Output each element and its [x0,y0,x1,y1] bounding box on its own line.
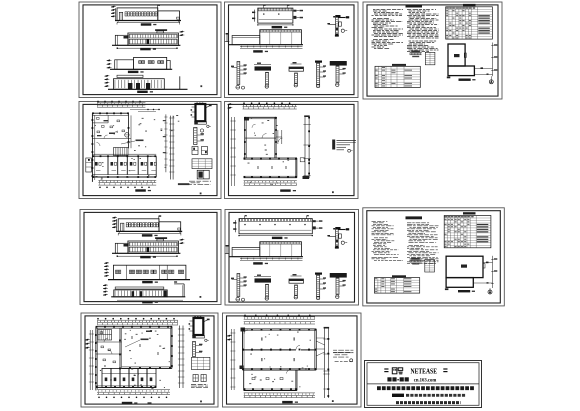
detail 3 vertical bar [295,73,298,84]
elevation 2 bottom dimension line [117,47,177,49]
elevation 1 building outline [118,219,159,232]
elevation 2 entrance dark door [147,39,150,44]
elevation 1 roof flag [158,216,160,222]
elevation 1 right wing [158,11,180,21]
room row band [102,368,156,387]
elevation 3 ground line [108,279,190,281]
elevation 3 long building outline [113,265,185,279]
detail 2 vertical bar [266,72,269,85]
roof plan outline [239,219,312,234]
elevation 1 left axis markers [111,6,114,8]
door window schedule table [446,7,493,39]
elevation 1 bottom dimension line [118,232,181,234]
detail 5 top slab [330,273,347,277]
door window schedule title [463,4,476,6]
plan top wall [92,112,128,114]
extension interior [252,378,255,380]
elevation 2 entrance dark door [147,247,150,252]
elevation 3 left axis markers [104,262,107,264]
key plan garage outline [446,256,483,277]
lower wide block top wall [244,157,297,159]
detail 4 side marks [320,278,325,280]
right top detail bubble [341,29,344,32]
strip dark base [303,176,310,179]
leader labels [125,340,140,347]
room row dividers [107,156,109,174]
detail 1 side leaders [240,277,246,279]
roof plan top hatch [258,8,292,10]
wall section mini detail [410,259,422,261]
window schedule mini table [192,357,210,369]
detail 5 top slab [330,61,347,65]
key plan caption [458,290,470,292]
elevation 3 right side wall [167,61,171,70]
elevation 3 left low block [115,60,134,70]
elevation 4 caption [142,301,153,303]
right wall-section strip [178,326,180,389]
right top detail hatched bar [336,229,339,248]
elevation 4 parapet strip [117,75,143,77]
room number marks [261,337,263,340]
long section strip main [260,30,302,45]
dimension text speckle [248,119,290,185]
elevation 4 window mullions [115,291,167,296]
column dots upper [244,117,246,119]
right mid hatched bar detail [194,128,197,145]
door arcs and clutter [114,131,118,135]
detail 2 vertical bar [266,284,269,297]
panel 2 sheet inner border [229,5,355,95]
sheet number mark [332,400,334,402]
elevation 4 window mullions [115,80,163,88]
bottom dimension strip [98,179,156,181]
key plan label [461,265,467,268]
schedule header row [446,8,448,9]
north arrow [489,80,493,84]
plan bottom wall right part [122,366,172,368]
roof plan ridge line [259,19,292,21]
right mid hatched bar detail [193,342,196,357]
dimension text speckle [100,330,170,388]
detail 2 bubble [265,85,268,88]
netease footer line [396,401,461,404]
roof plan right leader notes [293,10,296,12]
schedule header row [445,216,447,217]
mid horizontal wall [92,138,131,140]
roof plan caption [272,26,283,28]
detail 1 bubbles [236,297,240,301]
detail 5 vertical bar [336,66,339,83]
detail 3 horizontal slab [289,67,304,71]
plan fixtures upper [97,118,100,120]
sheet number mark [200,401,202,403]
section strip caption [253,262,263,264]
bottom dimension strip [244,392,315,394]
elevation 4 left axis markers [105,75,108,77]
right top detail flag [335,15,340,17]
key plan leader lines [474,67,492,69]
stair shaft top dots [194,317,196,319]
notes bubble [350,359,353,362]
detail 2 bubble [265,297,268,300]
roof plan top flags [262,5,264,8]
netease title glyph wang [392,368,397,374]
panel 10 sheet inner border [227,316,358,404]
detail 5 bubble [336,295,339,298]
detail 4 vertical bar [317,63,320,85]
interior door arc upper [252,124,256,128]
elevation 4 dark doors [128,83,132,89]
key plan garage outline [448,44,465,66]
netease title equals right [443,368,447,370]
roof plan outline [258,8,293,23]
elevation 1 window row [125,12,127,16]
stair shaft bottom bar [193,335,205,338]
elevation 2 left wing door [124,36,128,39]
roof plan top flags [244,216,246,219]
key plan door mark [464,53,466,58]
detail 5 bubble [336,83,339,86]
bottom dimension strip [97,389,170,391]
lower block column dots [244,158,246,160]
elevation 2 lower window band [129,247,177,252]
room row fixtures [95,162,98,166]
plan caption [280,189,291,191]
roof plan left markers [235,220,237,232]
left dimension lines [231,117,233,186]
detail 1 vertical bar [237,62,240,85]
elevation 2 caption [140,48,151,50]
strip left box [300,158,304,162]
mini schedule strip table [425,52,435,65]
elevation 3 caption [128,71,138,73]
plan interior partitions [96,341,122,343]
right top detail flag [335,227,340,229]
schedule cell entries [445,215,447,218]
detail 3 bubble [294,296,297,299]
plan caption [135,189,146,191]
elevation 2 right axis markers [180,31,183,33]
material table [375,66,420,87]
detail 2 horizontal slab [255,66,272,70]
stair shaft right leader [203,320,207,322]
key plan leader lines [483,262,493,264]
right top detail right arm [338,229,345,231]
stair shaft detail ring [196,104,206,121]
panel 8 sheet outer border [363,208,505,306]
svg-text:NETEASE: NETEASE [411,366,438,375]
elevation 3 caption [142,281,153,283]
netease banner inner border [367,363,479,406]
notes under figures [189,180,211,182]
stair shaft top dots [196,103,198,105]
top axis dimension lines [244,316,315,318]
upper-left room partition [92,122,108,124]
stair block top-left [98,330,112,341]
panel 7 sheet inner border [229,212,355,302]
elevation 2 upper window band [129,242,177,246]
left outside ramp [86,158,92,172]
right top detail footing [335,35,339,37]
elevation 2 ground line [112,44,180,46]
elevation 2 bottom dimension line [117,255,177,257]
panel 10 sheet outer border [223,313,362,407]
plan interior vertical wall [128,113,130,148]
detail 4 flag top [315,61,322,63]
sheet number mark [200,296,202,298]
stair shaft detail ring [194,318,204,335]
panel 4 sheet outer border [79,102,221,199]
bottom-left entry steps [240,366,244,370]
right top detail bubble [341,241,344,244]
right wall-section strip [324,328,326,398]
top-left entry steps [241,328,246,332]
elevation 2 upper window band [129,34,177,38]
wall section mini detail [410,52,422,54]
stair shaft right leader [205,106,209,108]
netease subtitle glyphs wangyi jianzhu [387,377,391,381]
material table title [392,64,406,66]
section strip ground line [229,256,303,258]
panel 8 sheet inner border [367,211,501,303]
detail 4 bubble [316,84,319,87]
key plan caption [459,79,471,81]
dimension text speckle [249,332,311,387]
upper block top wall [245,116,276,118]
elevation 3 windows [139,61,142,64]
door swing detail right of block [277,130,279,144]
netease slogan line [377,386,474,390]
elevation 1 entrance door [121,223,124,231]
interior mid wall and door [245,137,276,139]
right top detail left arm [328,23,335,25]
elevation 4 parapet strip [115,287,164,289]
sheet number mark [200,85,202,87]
detail 4 flag top [315,273,322,275]
right wall-section strip [304,116,306,178]
elevation 4 ground line [108,88,188,90]
opening detail figures [192,147,198,155]
key plan dimension line [492,256,494,288]
stair shaft left ticks [192,106,196,108]
detail 5 leaders [339,281,344,283]
netease contact line [392,394,404,397]
window schedule mini table [192,159,212,169]
sheet number mark [332,191,334,193]
plan caption [282,401,293,403]
elevation 4 bottom dimension line [117,299,183,301]
panel 2 sheet outer border [225,2,359,98]
sheet number mark [200,193,202,195]
elevation 1 ground line [116,230,182,232]
roof plan top hatch [240,219,312,221]
elevation 4 right post [179,76,181,89]
room row fixtures [105,378,108,382]
panel 9 sheet outer border [81,313,218,407]
long section strip left wing [232,36,260,45]
panel 3 sheet inner border [367,5,498,96]
material table title [392,275,406,277]
netease title equals left [384,368,388,370]
netease divider rule [367,383,479,385]
plan right wall [169,328,171,368]
elevation 1 entrance door [119,12,122,20]
roof plan bottom dimension [239,235,312,237]
elevation 3 left axis markers [107,60,110,62]
key plan dimension line [492,43,494,77]
elevation 3 ground line [110,68,172,70]
interior room marks [139,344,141,347]
elevation 1 right wing [159,222,181,232]
leader label [121,141,135,144]
window type figures [193,375,198,382]
detail 3 bubble [294,84,297,87]
elevation 1 window row [126,223,128,227]
roof plan bottom dimension [258,24,293,26]
elevation 1 bottom dimension line [117,22,180,24]
material table [374,278,419,294]
upper block left wall [244,117,246,158]
mini schedule strip table [425,260,435,273]
plan interior vertical wall [119,328,121,368]
right vertical dimension line [165,114,167,172]
plan caption [122,402,133,404]
right notes dark mark [332,140,335,150]
elevation 4 right extension [174,283,184,285]
key plan corner blob [445,288,449,290]
north arrow [488,290,492,294]
room row top wall [92,153,156,155]
detail 4 vertical bar [317,275,320,297]
lower block interior marks [257,166,259,169]
right top detail right arm [338,17,345,19]
elevation 1 caption [142,234,153,236]
elevation 1 wing end window [178,228,181,230]
room row bottom wall [96,385,156,387]
stair detail bubbles [205,339,207,341]
lower wide block bottom wall [244,175,297,177]
far left detail marks [226,245,229,247]
elevation 4 caption [137,91,148,93]
panel 1 sheet inner border [83,5,217,95]
elevation 3 right block [134,57,167,69]
detail reference circle [125,133,129,137]
panel 7 sheet outer border [225,210,359,306]
svg-text:cn.163.com: cn.163.com [414,378,437,384]
section strip caption [253,50,263,52]
elevation 2 left wing [115,35,128,45]
detail 2 horizontal slab [255,278,272,282]
plan top wall [96,326,172,328]
elevation 1 roof flag [157,5,159,11]
elevation 3 wall joints [126,265,128,279]
section strip bottom dimensions [240,258,303,260]
extension column dots [244,388,246,390]
top axis dimension lines [97,319,178,321]
notes title [406,216,423,219]
key plan door mark [483,264,485,269]
top axis dimension lines [243,104,297,106]
left dimension lines [231,329,233,390]
stair detail bubbles [207,125,209,127]
right top detail footing [335,247,339,249]
panel 5 sheet inner border [229,104,355,195]
detail 3 horizontal slab [289,279,304,283]
elevation 4 main band [114,79,165,90]
notes middle text column [407,9,436,11]
bottom dimension strip [244,179,297,181]
elevation 2 roof equipment dark block [155,237,167,239]
elevation 4 left axis markers [103,284,106,286]
elevation 1 wing end window [177,17,180,19]
panel 5 sheet outer border [225,102,359,199]
top axis dimension lines [97,102,145,104]
elevation 2 ground line [112,252,180,254]
elevation 2 main block outline [128,33,178,45]
right notes text block [333,349,353,351]
elevation 1 left axis markers [112,217,115,219]
notes bubble [348,149,351,152]
plan fixtures [101,346,104,348]
right top detail left arm [328,235,335,237]
right wall-section strip [170,116,172,180]
elevation 2 roof equipment dark block [155,29,167,31]
elevation 4 ground line [111,296,185,298]
long section strip main [260,242,302,257]
right top detail side rect [339,234,342,238]
notes left text column [372,220,388,222]
strip connection ticks [316,337,324,339]
room row bottom wall [92,174,156,176]
elevation 2 left wing [115,243,128,253]
detail 3 vertical bar [295,285,298,296]
elevation 3 window pairs [116,270,118,274]
netease title glyph yi [398,368,403,371]
dimension text speckle [94,118,155,180]
strip top cap [304,115,310,117]
stair shaft left ticks [190,320,194,322]
roof plan left markers [253,10,255,22]
left dimension lines [89,330,91,390]
notes under figures [191,384,208,386]
elevation 1 building outline [117,8,158,21]
column dots main block [242,329,244,331]
upper block right wall [274,117,276,158]
detail 4 bubble [316,296,319,299]
main block walls [243,328,317,330]
dark window figure [197,170,209,179]
stair shaft bottom bar [195,122,207,125]
far left detail marks [226,33,229,35]
key plan label [454,54,460,57]
elevation 4 main band [114,290,167,297]
long section strip left wing [232,248,260,257]
notes left text column [373,9,403,11]
panel 3 sheet outer border [363,2,502,99]
schedule cell entries [456,7,458,10]
notes middle text column [407,222,429,224]
panel 6 sheet inner border [84,212,217,301]
elevation 2 left wing door [124,244,128,247]
door window schedule table [444,216,491,248]
detail 4 side marks [320,66,325,68]
roof plan caption [272,237,283,239]
detail 1 vertical bar [237,274,240,297]
notes title [406,5,423,8]
netease banner outer border [365,361,482,408]
elevation 2 lower window band [129,39,177,44]
roof plan right leader notes [313,220,316,222]
